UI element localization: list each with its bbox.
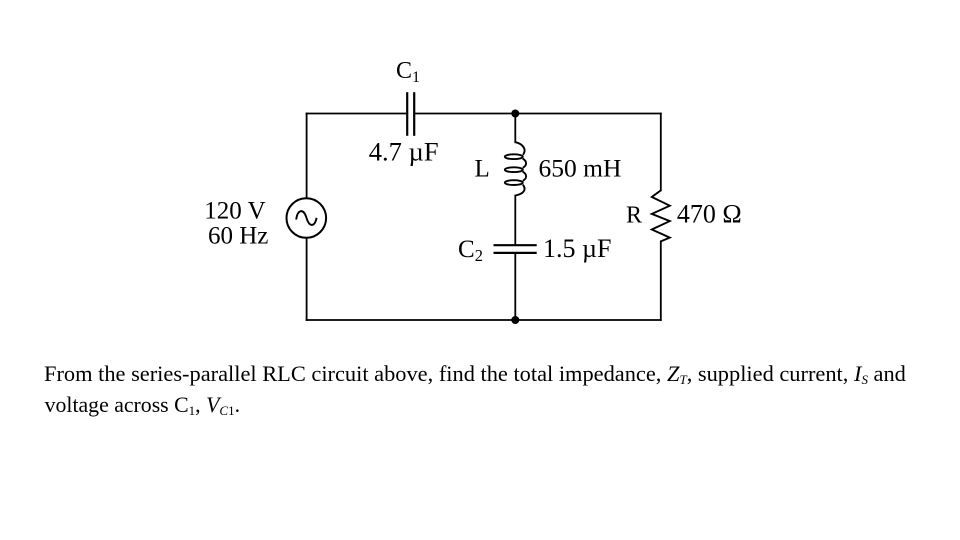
svg-text:650 mH: 650 mH <box>539 153 622 182</box>
node top junction <box>511 110 519 118</box>
capacitor C2 <box>494 245 537 253</box>
svg-text:1.5 µF: 1.5 µF <box>543 234 611 263</box>
wire right lower <box>660 241 662 320</box>
source V1 circle <box>287 198 327 238</box>
resistor R <box>652 190 670 241</box>
wire middle upper <box>514 114 516 143</box>
svg-text:60 Hz: 60 Hz <box>208 223 268 250</box>
wire middle mid <box>514 196 516 245</box>
wire bottom <box>307 319 661 321</box>
svg-text:C2: C2 <box>458 236 483 265</box>
svg-text:470 Ω: 470 Ω <box>677 199 742 228</box>
svg-text:voltage across C1, VC1.: voltage across C1, VC1. <box>45 393 240 418</box>
inductor L <box>505 142 526 195</box>
svg-text:From the series-parallel RLC c: From the series-parallel RLC circuit abo… <box>44 361 906 387</box>
source V1 sine <box>296 211 316 225</box>
wire left lower <box>306 238 308 320</box>
wire middle lower <box>514 254 516 320</box>
wire left upper <box>306 114 308 199</box>
svg-text:R: R <box>626 202 642 228</box>
node bottom junction <box>511 316 519 324</box>
wire top-left segment <box>307 113 408 115</box>
svg-text:4.7 µF: 4.7 µF <box>369 136 439 166</box>
svg-text:L: L <box>475 155 490 182</box>
svg-text:C1: C1 <box>396 58 420 86</box>
capacitor C1 <box>407 92 414 136</box>
svg-text:120 V: 120 V <box>204 198 265 225</box>
wire top-right segment <box>414 113 661 115</box>
wire right upper <box>660 114 662 191</box>
